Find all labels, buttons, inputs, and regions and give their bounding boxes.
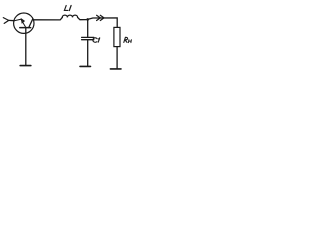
output double arrow <box>97 15 101 20</box>
resistor lower lead <box>116 47 118 69</box>
node junction dot <box>86 18 89 21</box>
wire inductor to junction <box>78 17 88 19</box>
label Rn: letter n <box>128 40 131 43</box>
ground bar (transistor) <box>20 65 31 67</box>
base lead wire down <box>25 28 27 65</box>
label L1: digit 1 <box>69 6 71 11</box>
resistor Rn <box>114 27 120 46</box>
capacitor C1 <box>82 37 94 39</box>
ground bar (resistor) <box>110 68 121 70</box>
transistor VT1 <box>14 13 34 33</box>
capacitor lower lead <box>87 40 89 66</box>
capacitor C1 lead from junction <box>87 20 89 38</box>
label L1: letter L <box>64 6 68 11</box>
inductor L1 <box>62 15 77 17</box>
label C1: letter C <box>93 38 97 42</box>
wire junction to corner <box>88 18 118 28</box>
label Rn: letter R <box>124 37 128 42</box>
wire collector to inductor <box>33 17 62 20</box>
wire input to transistor <box>9 19 15 21</box>
label C1: digit 1 <box>98 38 100 42</box>
input arrow <box>3 18 8 24</box>
ground bar (capacitor) <box>80 65 91 67</box>
